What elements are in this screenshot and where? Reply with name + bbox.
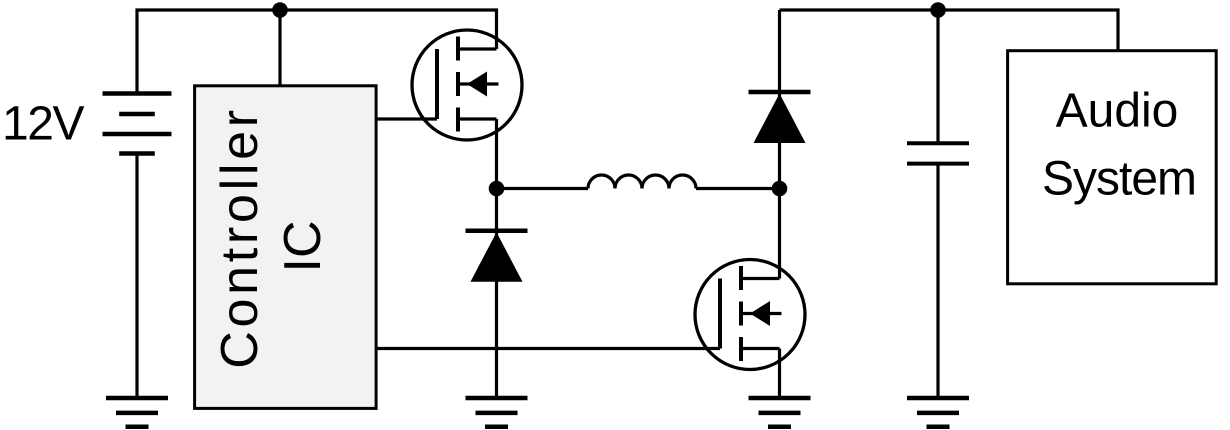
svg-text:Controller: Controller bbox=[211, 106, 269, 368]
svg-text:IC: IC bbox=[274, 221, 332, 273]
svg-text:System: System bbox=[1042, 153, 1196, 206]
svg-text:Audio: Audio bbox=[1056, 85, 1179, 138]
svg-text:12V: 12V bbox=[2, 98, 84, 151]
